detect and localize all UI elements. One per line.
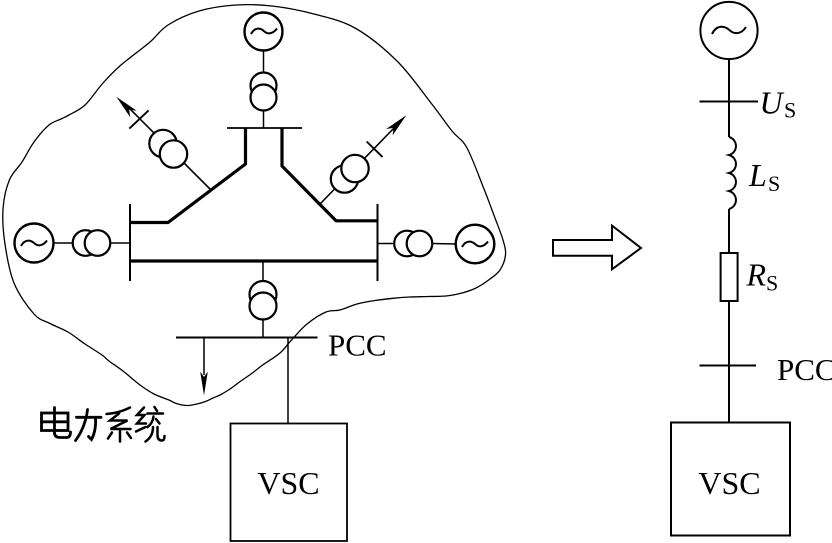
transformer T-top [251,73,277,99]
wire lower bus to T-bottom [262,261,264,282]
big hollow arrow [553,226,641,270]
wire T-left to left bus [110,242,130,244]
bus tick PCC right [700,365,757,367]
left bus [129,204,131,281]
power system boundary blob [3,5,506,406]
VSC box right [671,423,790,536]
inductor Ls [729,137,736,209]
transformer T-bottom [250,281,277,308]
wire G-top to T-top [263,51,265,74]
generator G-right [456,225,495,264]
thick lower tie line [130,259,378,262]
right bus [377,204,379,281]
svg-text:U: U [760,85,785,121]
load arrow at PCC bus [203,338,205,376]
label 电力系统 (hand drawn) [42,407,165,442]
svg-text:S: S [766,271,778,296]
transformer T-upleft [149,130,176,157]
svg-text:R: R [746,257,767,293]
transformer T-right [394,231,420,257]
generator G-s (right diagram) [700,2,757,59]
thick feeder right: stub, diagonal, horizontal to right bus [282,128,378,221]
tick upper-left branch [129,110,148,128]
transformer T-upright [331,165,358,192]
wire Ls to Rs [728,209,730,253]
resistor Rs [721,253,738,301]
svg-text:VSC: VSC [257,465,319,501]
VSC box left [231,424,348,542]
bus tick Us [700,101,759,103]
系 [107,408,131,415]
wire T-right to G-right [432,243,455,246]
svg-text:VSC: VSC [698,465,760,501]
svg-text:PCC: PCC [328,327,387,362]
svg-text:S: S [768,171,780,196]
wire G-left to T-left [54,242,74,244]
generator G-left [15,224,54,263]
top bus [227,127,302,129]
wire T-top to top bus [263,111,265,129]
wire Rs to PCC tick [728,301,730,423]
wire PCC bus to VSC left [287,338,289,424]
wire right bus to T-right [378,243,396,245]
PCC bus [176,337,318,339]
branch upper-right line [320,126,396,204]
tick upper-right branch [367,142,383,158]
svg-text:S: S [784,98,796,123]
wire G-s to Us bus [728,59,730,137]
统 [137,408,146,424]
电 [53,408,56,434]
arrowhead upper-left [116,97,136,117]
branch upper-left line [127,106,211,190]
thick feeder left: stub, diagonal, horizontal to left bus [130,128,246,223]
arrowhead upper-right [386,115,406,135]
transformer T-left [73,230,99,256]
svg-text:PCC: PCC [777,352,832,387]
力 [77,416,102,419]
wire T-bottom to PCC bus [262,320,264,338]
generator G-top [245,13,283,51]
svg-text:L: L [748,157,767,193]
